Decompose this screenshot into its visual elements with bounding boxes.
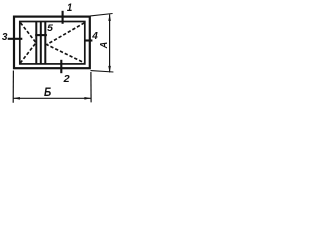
dimension A bottom extension line: [91, 71, 114, 72]
leader line 4: [84, 39, 92, 41]
arrowhead A top: [108, 14, 111, 21]
inner frame (box): [20, 22, 85, 64]
svg-text:2: 2: [63, 74, 71, 85]
left sash opening symbol (dashed): [21, 23, 37, 63]
right sash left stile: [44, 22, 46, 64]
left sash right stile: [35, 22, 37, 64]
dimension line A: [109, 14, 111, 72]
leader line 3: [8, 38, 23, 40]
arrowhead B left: [13, 97, 20, 100]
dimension B left extension line: [12, 71, 14, 103]
svg-text:1: 1: [67, 2, 72, 14]
svg-text:А: А: [99, 42, 110, 49]
svg-text:Б: Б: [44, 85, 52, 99]
leader line 5: [35, 34, 47, 36]
leader line 2: [60, 60, 62, 73]
arrowhead A bottom: [108, 66, 111, 73]
dimension B right extension line: [90, 72, 92, 102]
dimension A top extension line: [90, 14, 112, 16]
dimension line B: [13, 97, 91, 99]
mullion (impost): [40, 22, 42, 64]
outer window frame: [14, 17, 90, 69]
svg-text:4: 4: [91, 31, 98, 42]
arrowhead B right: [84, 97, 91, 100]
leader line 1: [62, 11, 64, 24]
svg-text:3: 3: [2, 32, 8, 43]
right sash opening symbol (dashed): [47, 23, 85, 63]
